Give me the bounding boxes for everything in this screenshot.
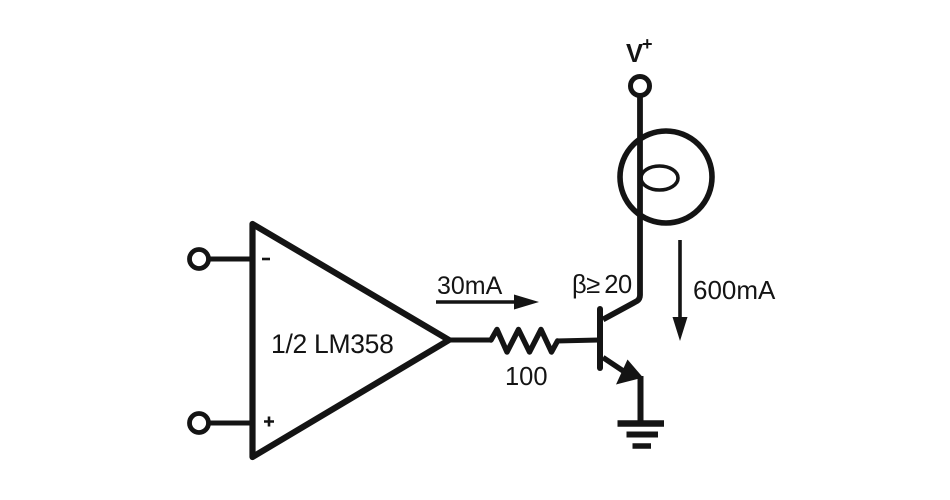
terminal (inverting input) (190, 250, 209, 269)
terminal (non-inverting input) (190, 414, 209, 433)
svg-text:V: V (626, 40, 643, 68)
op-amp U1 (1/2 LM358) triangle (253, 224, 450, 457)
wire non-inverting input to op-amp (209, 421, 253, 426)
wire emitter to ground (638, 376, 644, 422)
600mA current arrow (678, 240, 682, 322)
lamp filament loop (641, 166, 678, 190)
svg-text:100: 100 (505, 363, 548, 391)
wire inverting input to op-amp (209, 257, 253, 262)
transistor Q1 collector lead (603, 95, 640, 320)
transistor Q1 emitter arrowhead (616, 360, 643, 385)
V+ terminal (631, 77, 650, 96)
svg-text:+: + (642, 34, 653, 54)
lamp (bulb) circle (620, 131, 712, 223)
ground (618, 424, 665, 447)
transistor Q1 base bar (597, 309, 603, 368)
transistor Q1 emitter lead (603, 358, 624, 372)
wire resistor to transistor base (556, 340, 599, 341)
svg-text:1/2 LM358: 1/2 LM358 (271, 329, 394, 359)
wire op-amp output to resistor (447, 338, 492, 343)
op-amp minus pin label (262, 258, 270, 261)
svg-text:30mA: 30mA (437, 272, 503, 300)
svg-text:600mA: 600mA (693, 275, 776, 305)
resistor R1 (491, 330, 558, 353)
op-amp plus pin label (264, 417, 274, 427)
svg-text:β≥ 20: β≥ 20 (572, 271, 632, 299)
30mA current arrow (436, 300, 519, 304)
